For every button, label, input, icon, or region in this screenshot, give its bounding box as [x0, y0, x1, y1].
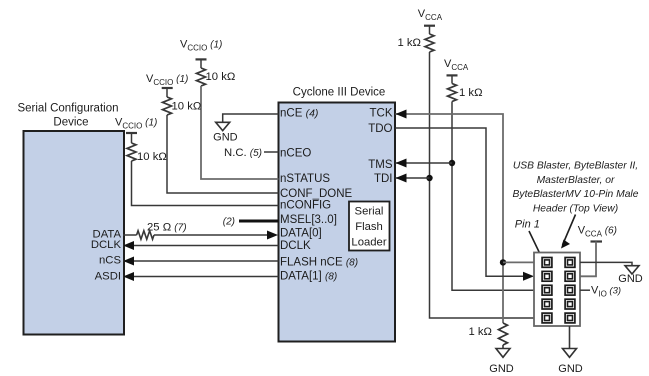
svg-text:DCLK: DCLK [280, 240, 311, 252]
svg-text:ByteBlasterMV 10-Pin Male: ByteBlasterMV 10-Pin Male [513, 189, 639, 200]
wire TDO [396, 128, 524, 276]
Serial Configuration Device box [24, 131, 125, 335]
svg-text:N.C. (5): N.C. (5) [224, 147, 262, 159]
svg-text:25 Ω (7): 25 Ω (7) [147, 222, 187, 234]
wire DATA with resistor R7 25ohm [123, 234, 137, 236]
wire MSEL thick [239, 220, 279, 223]
pin2 square [565, 258, 575, 268]
svg-text:TDO: TDO [368, 123, 392, 135]
junction TMS [449, 160, 455, 166]
resistor R4 1k [429, 26, 431, 34]
Serial Flash Loader block [349, 202, 390, 251]
wire NC to nCEO [264, 151, 279, 153]
wire VCCA6 to header pin4 [580, 242, 596, 277]
svg-text:ASDI: ASDI [95, 270, 121, 282]
wire nCE to ground [223, 114, 279, 122]
svg-text:VCCA: VCCA [418, 8, 443, 22]
svg-text:MSEL[3..0]: MSEL[3..0] [280, 214, 337, 226]
svg-text:Pin 1: Pin 1 [515, 219, 540, 231]
svg-text:1 kΩ: 1 kΩ [397, 37, 421, 49]
svg-text:GND: GND [213, 132, 238, 144]
pin3 square [542, 271, 552, 281]
pointer header arrow [563, 215, 576, 246]
svg-text:TDI: TDI [374, 173, 393, 185]
power VCCIO 3 T-bar [126, 132, 137, 134]
svg-text:Serial: Serial [355, 206, 384, 218]
svg-text:nSTATUS: nSTATUS [280, 173, 330, 185]
pin6 square [565, 285, 575, 295]
svg-text:1 kΩ: 1 kΩ [459, 87, 483, 99]
resistor R1 10k [200, 59, 202, 68]
svg-text:TCK: TCK [370, 107, 393, 119]
svg-text:MasterBlaster, or: MasterBlaster, or [537, 175, 615, 186]
pin10 square [565, 313, 575, 323]
wire R1 to nSTATUS [201, 86, 279, 179]
wire R3 to nCONFIG [132, 161, 279, 206]
pin9 square [542, 313, 552, 323]
pin5 square [542, 285, 552, 295]
pointer pin1 line [529, 231, 542, 257]
svg-text:10 kΩ: 10 kΩ [137, 151, 167, 163]
wire R2 to CONF_DONE [167, 115, 279, 193]
svg-text:(2): (2) [223, 217, 235, 228]
svg-text:Flash: Flash [355, 221, 383, 233]
svg-text:USB Blaster, ByteBlaster II,: USB Blaster, ByteBlaster II, [513, 161, 638, 172]
svg-text:nCONFIG: nCONFIG [280, 200, 331, 212]
wire R4 to TDI and header pin9 [430, 52, 535, 318]
header connector J1 [534, 253, 580, 327]
pin7 square [542, 299, 552, 309]
svg-text:GND: GND [489, 363, 514, 375]
wire pin6 to VIO [580, 289, 590, 291]
junction TCK header [500, 259, 506, 265]
ground header bottom [563, 349, 577, 358]
svg-text:Loader: Loader [351, 236, 386, 248]
wire TCK junction to header pin1 [503, 261, 534, 263]
svg-text:nCS: nCS [99, 255, 121, 267]
svg-text:CONF_DONE: CONF_DONE [280, 188, 353, 200]
svg-text:10 kΩ: 10 kΩ [172, 101, 202, 113]
ground right of header [625, 266, 639, 274]
wire TDI [396, 177, 430, 179]
svg-text:Serial Configuration: Serial Configuration [17, 103, 118, 115]
svg-text:FLASH nCE (8): FLASH nCE (8) [280, 256, 358, 268]
svg-text:10 kΩ: 10 kΩ [206, 71, 236, 83]
wire ASDI to DATA[1] [123, 276, 279, 278]
resistor R6 1k on TCK rail [499, 323, 508, 345]
svg-text:nCEO: nCEO [280, 148, 311, 160]
pin1 square [542, 258, 552, 268]
ground nCE [216, 122, 230, 130]
svg-text:DCLK: DCLK [91, 239, 122, 251]
ground TCK rail [502, 345, 504, 348]
svg-text:TMS: TMS [368, 159, 393, 171]
power VCCA 6 T-bar [591, 240, 603, 242]
svg-text:VCCIO (1): VCCIO (1) [180, 39, 222, 53]
power VCCIO 1 T-bar [196, 58, 207, 60]
junction TDI [426, 175, 432, 181]
power VCCA 2 T-bar [447, 74, 458, 76]
svg-text:VCCIO (1): VCCIO (1) [115, 116, 157, 130]
wire pin2 to ground [580, 262, 632, 265]
wire DCLK [123, 245, 279, 247]
wire R5 to TMS and header pin5 [452, 102, 534, 291]
svg-text:nCE (4): nCE (4) [280, 107, 318, 119]
svg-text:VCCA: VCCA [444, 58, 469, 72]
svg-text:GND: GND [618, 273, 643, 285]
svg-text:1 kΩ: 1 kΩ [468, 326, 492, 338]
resistor R2 10k [166, 89, 168, 97]
Cyclone III device U1 [279, 103, 396, 342]
power VCCIO 2 T-bar [162, 87, 173, 89]
resistor R3 10k [131, 133, 133, 143]
svg-text:GND: GND [558, 363, 583, 375]
svg-text:VCCIO (1): VCCIO (1) [146, 73, 188, 87]
pin8 square [565, 299, 575, 309]
resistor R5 1k [451, 75, 453, 83]
svg-text:VCCA (6): VCCA (6) [578, 225, 617, 239]
svg-text:Cyclone III Device: Cyclone III Device [293, 87, 386, 99]
svg-text:DATA[0]: DATA[0] [280, 227, 322, 239]
wire nCS to FLASH nCE [123, 260, 279, 262]
wire TCK [396, 114, 504, 323]
power VCCA 1 T-bar [424, 25, 435, 27]
wire TMS [396, 162, 453, 164]
svg-text:Device: Device [53, 117, 88, 129]
svg-text:VIO (3): VIO (3) [591, 285, 621, 299]
wire pin10 to ground [569, 326, 571, 348]
svg-text:DATA[1] (8): DATA[1] (8) [280, 270, 337, 282]
svg-text:Header (Top View): Header (Top View) [533, 204, 618, 215]
pin4 square [565, 271, 575, 281]
